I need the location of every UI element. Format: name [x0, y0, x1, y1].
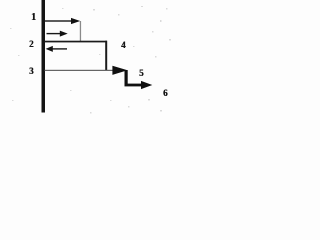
label 6	[163, 89, 168, 98]
label 2	[29, 40, 34, 49]
wall (thick vertical barrier line)	[42, 0, 46, 113]
wire arrow 2 shaft (short right arrow)	[47, 33, 62, 34]
label 3	[29, 67, 34, 76]
wire arrow 3 (left pointing) shaft	[49, 48, 67, 49]
label 4	[121, 41, 126, 50]
wire big right arrowhead at level 3	[112, 66, 127, 75]
wire arrow 1 head	[71, 18, 80, 24]
wire level-3 horizontal (faint)	[45, 70, 115, 71]
wire bottom thick arrow head	[141, 81, 152, 89]
wire arrow 2 head	[60, 31, 68, 37]
wire grey drop from arrow 1	[80, 21, 81, 42]
wire arrow 1 shaft	[45, 20, 73, 21]
wire bottom thick arrow shaft	[125, 84, 143, 87]
wire step vertical drop	[105, 41, 107, 71]
wire step horizontal at level 2	[45, 41, 108, 43]
scan noise speckles	[0, 0, 176, 127]
wire thick vertical connector	[125, 70, 128, 86]
label 5	[139, 69, 144, 78]
wire arrow 3 head	[46, 46, 53, 52]
label 1	[31, 13, 36, 23]
